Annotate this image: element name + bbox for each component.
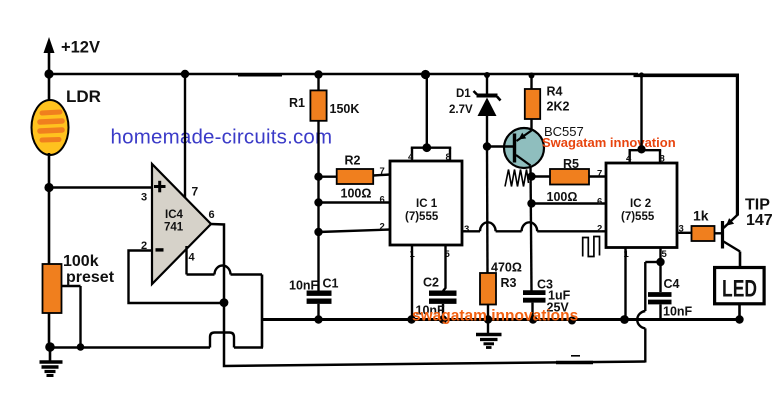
zigzag scribble below BC557 (505, 170, 529, 187)
node pin5 junction (656, 258, 664, 266)
IC1 555 box (390, 161, 462, 245)
node IC1 pin6 junction (314, 198, 322, 206)
svg-text:6: 6 (209, 209, 215, 221)
svg-text:3: 3 (464, 224, 469, 235)
wire LED bottom to bus (738, 304, 741, 320)
svg-text:741: 741 (164, 222, 184, 234)
svg-text:4: 4 (626, 154, 632, 165)
wire IC1 pin6 (319, 201, 391, 203)
node C1 bus junction (314, 315, 322, 323)
wire top supply rail (49, 73, 638, 76)
preset 100k (43, 264, 81, 347)
wire preset bottom lead (48, 313, 51, 347)
wire op-amp pin2 feedback (129, 251, 225, 304)
svg-text:LDR: LDR (66, 87, 101, 106)
wire main ground bus (262, 318, 741, 321)
capacitor C2 (429, 293, 457, 319)
node supply junction (44, 69, 53, 78)
node IC1 pin2 junction (314, 228, 322, 236)
svg-text:(7)555: (7)555 (621, 211, 655, 223)
node R2 junction (314, 173, 322, 181)
resistor R1 (310, 74, 326, 177)
svg-text:4: 4 (189, 252, 196, 264)
node LDR/preset junction (44, 183, 53, 192)
resistor R2 (319, 169, 391, 184)
wire op-amp pin3 input (49, 186, 152, 188)
node C3 bus junction (529, 315, 537, 323)
node preset wiper junction (77, 343, 85, 351)
op-amp U1 IC4 741 (152, 164, 211, 284)
node R3 bus junction (484, 315, 492, 323)
zener diode D1 (474, 74, 501, 147)
svg-text:6: 6 (597, 197, 602, 208)
svg-text:swagatam innovations: swagatam innovations (412, 308, 578, 325)
capacitor C1 (307, 293, 332, 319)
svg-text:IC 2: IC 2 (630, 198, 651, 210)
svg-text:R3: R3 (501, 276, 517, 290)
capacitor C4 (648, 262, 672, 320)
wire LDR bottom lead to preset (48, 153, 51, 265)
svg-text:4: 4 (408, 152, 414, 163)
svg-text:100Ω: 100Ω (341, 187, 372, 201)
svg-text:2: 2 (597, 224, 602, 235)
wire left vertical tie x=262 (261, 275, 264, 348)
resistor R4 (525, 74, 540, 131)
wire IC1 pin5 to C2 (443, 245, 446, 291)
wire IC2 pin1 to bus (624, 248, 626, 320)
wire LDR top lead (48, 74, 51, 102)
svg-text:D1: D1 (456, 88, 471, 100)
IC2 555 box (606, 163, 677, 248)
label 100k preset (63, 253, 115, 286)
resistor R5 (532, 169, 607, 185)
svg-text:100Ω: 100Ω (547, 190, 578, 204)
svg-text:7: 7 (192, 185, 199, 199)
ground middle (476, 320, 502, 348)
IC1 top bracket pins 4 8 (411, 74, 451, 161)
svg-text:C2: C2 (423, 276, 439, 290)
+12V supply arrow (44, 37, 55, 74)
node BC557 base junction (483, 142, 491, 150)
node pin7 rail junction (181, 70, 189, 78)
svg-text:100k: 100k (63, 253, 99, 270)
svg-text:(7)555: (7)555 (405, 211, 439, 223)
transistor Q1 BC557 (487, 128, 544, 168)
node R1 rail junction (314, 70, 322, 78)
resistor 1k (692, 226, 715, 241)
node ground junction left (45, 342, 55, 352)
transistor Q2 TIP147 (715, 215, 741, 269)
node bus blob (568, 317, 576, 325)
node R4 rail junction (529, 73, 535, 79)
node IC1 bracket junction (422, 143, 431, 152)
svg-text:1k: 1k (693, 208, 709, 224)
svg-text:R2: R2 (345, 154, 361, 168)
wire modulation vertical with bus hop (637, 262, 645, 363)
svg-text:C4: C4 (664, 277, 680, 291)
wire IC1 pin2 (319, 230, 391, 233)
svg-text:IC4: IC4 (165, 209, 184, 221)
wire IC2 pin3 to 1k (677, 232, 692, 234)
node IC2 rail junction (639, 72, 644, 77)
wire bottom-left ground bus (50, 333, 263, 348)
svg-text:470Ω: 470Ω (491, 261, 522, 275)
LED box (715, 268, 765, 304)
svg-text:6: 6 (380, 195, 385, 206)
wire IC1 pin1 to bus (411, 245, 413, 320)
node IC1 rail junction (421, 70, 430, 79)
svg-text:7: 7 (380, 166, 385, 177)
svg-text:8: 8 (446, 152, 451, 163)
wire IC2 pin6 (532, 202, 607, 204)
ground left (40, 347, 63, 376)
svg-text:R4: R4 (547, 85, 563, 99)
wire D1 to R3 vertical (486, 147, 489, 274)
wire R1/C1 rail down (317, 177, 319, 291)
wire op-amp pin4 to ground tie (187, 246, 263, 275)
wire op-amp output down (211, 224, 645, 366)
node feedback junction on output (220, 298, 229, 307)
node IC2 bracket junction (637, 145, 645, 153)
wire IC1 pin3 to IC2 pin2 (462, 222, 606, 231)
svg-text:2: 2 (380, 222, 385, 233)
wire thick top-right rail segment (634, 74, 739, 216)
svg-text:IC 1: IC 1 (416, 198, 438, 210)
svg-text:+12V: +12V (61, 39, 100, 57)
svg-text:LED: LED (722, 276, 757, 303)
svg-text:147: 147 (746, 212, 773, 229)
node R5 junction (527, 172, 535, 180)
squarewave symbol (583, 237, 600, 257)
svg-text:2.7V: 2.7V (449, 104, 473, 116)
capacitor C3 (523, 293, 546, 320)
wire bottom line darker patch (556, 356, 593, 363)
svg-text:10nF: 10nF (289, 279, 319, 293)
IC2 top bracket pins 4 8 (629, 75, 662, 164)
node D1 rail junction (484, 72, 490, 78)
node IC2 pin1 bus junction (620, 315, 629, 324)
svg-text:150K: 150K (330, 102, 360, 116)
svg-text:7: 7 (597, 169, 602, 180)
node IC2 pin6 junction (527, 199, 535, 207)
svg-text:R1: R1 (289, 96, 305, 110)
resistor R3 (480, 273, 496, 320)
svg-text:homemade-circuits.com: homemade-circuits.com (111, 126, 333, 149)
wire op-amp pin7 to rail (184, 74, 186, 198)
wire pin5 jog to modulation line (645, 261, 660, 263)
svg-text:2K2: 2K2 (547, 100, 570, 114)
wire BC557 collector down (531, 166, 532, 291)
svg-text:R5: R5 (563, 157, 579, 171)
wire IC2 pin5 (659, 248, 661, 263)
svg-text:Swagatam innovation: Swagatam innovation (542, 135, 676, 150)
node C2 bus junction (439, 315, 447, 323)
svg-text:C1: C1 (323, 277, 339, 291)
node LED bus junction (735, 315, 743, 323)
svg-text:TIP: TIP (745, 197, 770, 214)
node pin1 bus junction (407, 315, 415, 323)
LDR (32, 100, 69, 155)
svg-text:preset: preset (66, 269, 115, 286)
svg-text:8: 8 (660, 154, 665, 165)
svg-text:10nF: 10nF (663, 305, 693, 319)
svg-text:3: 3 (141, 192, 147, 204)
